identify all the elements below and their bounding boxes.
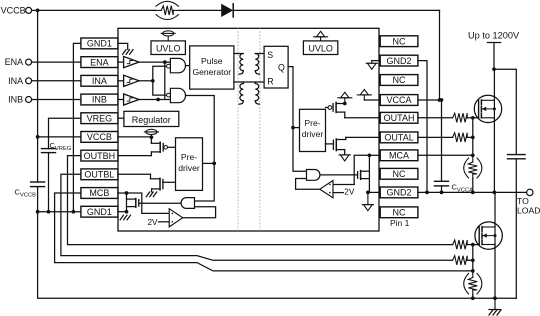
svg-text:Generator: Generator: [192, 67, 231, 77]
svg-text:INB: INB: [8, 95, 23, 105]
wire gate node vertical (A): [472, 118, 474, 156]
wire VCCB terminal to rail: [32, 9, 38, 11]
wire VREG to Regulator: [118, 117, 124, 119]
svg-text:R: R: [267, 77, 273, 87]
svg-text:Pulse: Pulse: [201, 56, 223, 66]
wire INA: [32, 80, 81, 82]
power flag VCCA at pin: [360, 89, 368, 95]
transformer T2 primary: [240, 84, 243, 101]
gate driver IC outline: [118, 28, 379, 231]
node Q to pre-driver A: [291, 126, 295, 130]
and gate U2B: [170, 88, 185, 102]
resistor RG2 (OUTAL): [453, 133, 468, 142]
wire INB to gate U2B: [139, 99, 170, 101]
block Pre-driver (B): [176, 138, 203, 191]
node VCCB rail junction: [36, 9, 40, 13]
svg-text:Pre-: Pre-: [181, 152, 197, 162]
wire GND1 top pin to GND1 net: [73, 43, 81, 211]
power flag VCCB above UVLO: [163, 31, 174, 36]
wire top rail to fuse: [38, 9, 156, 11]
wire ENA down to INB input: [164, 62, 166, 99]
svg-text:NC: NC: [393, 208, 406, 218]
block UVLO (A-side): [303, 41, 337, 55]
wire GND2b pin: [368, 191, 380, 193]
wire OUTAH to gate resistor: [418, 117, 453, 119]
wire MCA comparator feed: [333, 155, 369, 184]
buffer INB (schmitt): [118, 99, 124, 101]
ground M2 source (GND1): [146, 192, 149, 197]
wire bootstrap rail down to VCCA: [439, 10, 441, 100]
resistor RG1 (OUTAH): [453, 113, 468, 122]
wire Q2 source to ground bus: [494, 245, 496, 299]
node B-channel net: [212, 162, 216, 166]
wire VCCA pin stub: [364, 99, 380, 101]
node MCA clamp node: [368, 153, 372, 157]
wire DC-link cap to ground bus: [515, 159, 517, 298]
node VCCB rail node: [150, 135, 154, 139]
wire GND1 main ground bus: [38, 212, 517, 299]
transistor M2 (NMOS pull-down): [150, 174, 152, 179]
svg-text:INA: INA: [92, 76, 107, 86]
wire U2B out to B-channel net: [186, 96, 215, 164]
wire Q2 drain: [494, 192, 496, 227]
resistor RG3 (OUTBH bus): [453, 240, 468, 249]
pin box OUTAH (right): [380, 112, 418, 123]
pin box NC (right): [380, 168, 418, 179]
node CVCCB-GND1: [36, 210, 40, 214]
wire OUTAL to gate resistor: [418, 136, 453, 138]
wire VCCA pin to CVCCA: [418, 100, 442, 181]
node Q2 source junction: [493, 296, 497, 300]
wire MCA pin: [369, 154, 380, 156]
wire VCCB to CVCCB: [37, 137, 39, 182]
pin box GND1 (left): [81, 206, 118, 217]
block SR latch: [264, 46, 288, 88]
svg-text:OUTBH: OUTBH: [84, 151, 116, 161]
capacitor DC link: [508, 154, 526, 156]
and gate U3 (clamp driver B): [181, 198, 194, 209]
svg-text:NC: NC: [393, 36, 406, 46]
svg-text:Regulator: Regulator: [132, 115, 171, 125]
wire MCB pin: [118, 192, 127, 194]
pin box GND2 (right): [380, 187, 418, 198]
wire Q to pre-driver A: [293, 127, 300, 129]
wire CVCCA to switch node: [441, 186, 443, 193]
wire OUTBL bus: [61, 174, 453, 260]
svg-text:OUTAH: OUTAH: [384, 113, 415, 123]
ground flag GND2 at M5 source: [339, 154, 350, 156]
svg-text:ENA: ENA: [5, 57, 24, 67]
svg-text:Up to 1200V: Up to 1200V: [468, 31, 520, 41]
node MCA junction: [471, 153, 475, 157]
wire INA to gate U2A bubble: [153, 66, 167, 81]
svg-text:ENA: ENA: [90, 57, 109, 67]
transformer T1 primary: [234, 53, 243, 55]
resistor RG4 (OUTBL bus): [453, 256, 468, 265]
isolation barrier dashed line left: [237, 28, 239, 231]
wire OUTAH pin: [345, 117, 380, 119]
wire GND2a flag stub: [372, 60, 380, 62]
power flag VCCA rail: [341, 92, 349, 98]
terminal TO LOAD: [527, 189, 533, 195]
svg-text:2V: 2V: [147, 218, 158, 227]
wire ENA to gate U2A: [139, 61, 170, 63]
wire HV rail: [487, 42, 500, 44]
wire RGS-B to ground bus: [472, 295, 474, 299]
node ENA branch: [163, 60, 167, 64]
gate-emitter device RGS-B (resistor with arcs): [468, 277, 477, 290]
wire 2V ref B: [159, 221, 170, 223]
wire B-channel net to AND U3: [195, 163, 215, 201]
wire to VCCB pin: [38, 136, 81, 138]
wire RG4 to gate node: [467, 259, 473, 261]
wire GND2 switch-node line: [418, 191, 527, 193]
power flag VCCB rail: [146, 129, 157, 134]
svg-text:Pin 1: Pin 1: [390, 218, 410, 228]
svg-text:TO: TO: [517, 196, 529, 206]
and gate U2A: [170, 58, 185, 72]
pin box INB (left): [81, 94, 118, 105]
node VCCB pin junction: [36, 135, 40, 139]
svg-text:OUTBL: OUTBL: [84, 170, 114, 180]
svg-text:NC: NC: [393, 169, 406, 179]
pin box GND2 (right): [380, 55, 418, 66]
wire OUTBH pin: [118, 155, 151, 157]
wire Pre-driver B input: [203, 162, 215, 164]
node HV junction: [492, 67, 496, 71]
wire 2V ref A: [333, 192, 343, 194]
capacitor CVCCA: [435, 180, 449, 182]
wire INB: [32, 99, 81, 101]
node Q1 source junction: [493, 191, 497, 195]
node RG4 junction: [471, 258, 475, 262]
wire RG3 to Q2 gate: [467, 244, 479, 246]
node MCB junction: [471, 269, 475, 273]
svg-text:Q: Q: [278, 63, 285, 73]
svg-text:OUTAL: OUTAL: [384, 133, 413, 143]
isolation barrier dashed line right: [259, 28, 261, 231]
comparator U4 (2V, B-side): [169, 209, 183, 227]
pin box NC (right): [380, 36, 418, 47]
wire clamp gate A: [321, 174, 358, 176]
wire Q1 drain: [493, 69, 495, 100]
transistor M3 (Miller clamp B): [126, 193, 128, 212]
svg-text:UVLO: UVLO: [308, 43, 333, 53]
ground GND1 at top pin: [118, 43, 128, 49]
wire RG1 to Q1 gate: [467, 117, 478, 119]
comparator U6 (2V, A-side): [320, 181, 333, 198]
transistor M1 (PMOS pull-up): [150, 137, 152, 143]
wire MCB comparator feed: [127, 193, 170, 213]
inrush limiter RS (resistor with arcs): [161, 6, 173, 15]
svg-text:driver: driver: [302, 129, 324, 139]
pin box VCCB (left): [81, 132, 118, 143]
capacitor CVREG: [42, 148, 56, 150]
svg-text:Pre-: Pre-: [304, 118, 320, 128]
transformer T2 secondary: [255, 84, 258, 101]
node RGS-A to GND2 line: [471, 191, 475, 195]
svg-text:VCCA: VCCA: [387, 95, 412, 105]
ground flag GND2 bottom pin: [367, 192, 369, 204]
wire comparator A out to AND U5: [296, 179, 320, 190]
wire OUTBH bus: [68, 156, 453, 245]
block Pulse Generator: [190, 46, 234, 89]
svg-text:VCCB: VCCB: [1, 6, 26, 16]
svg-text:MCA: MCA: [389, 151, 409, 161]
wire pulse generator to T2 / R input: [234, 81, 264, 83]
wire Q output: [288, 67, 306, 172]
node INB junction: [156, 98, 160, 102]
wire GND1 bottom pin: [118, 211, 127, 213]
pin box NC (right): [380, 75, 418, 86]
node GND2a junction: [425, 191, 429, 195]
wire clamp gate: [139, 202, 182, 204]
node clamp source GND1: [125, 210, 129, 214]
node INA branch: [151, 79, 155, 83]
wire CVCCB to GND1 line: [37, 187, 39, 212]
svg-text:GND1: GND1: [87, 39, 112, 49]
gate-emitter device RGS-A (resistor with arcs): [468, 162, 477, 174]
wire MCB bus: [55, 193, 473, 271]
transformer T1 secondary: [255, 53, 264, 55]
svg-text:GND2: GND2: [387, 188, 412, 198]
svg-text:UVLO: UVLO: [156, 43, 181, 53]
wire fuse to diode: [179, 9, 221, 11]
svg-text:INB: INB: [92, 95, 107, 105]
svg-text:2V: 2V: [344, 188, 355, 197]
svg-text:VCCB: VCCB: [87, 132, 112, 142]
node M4 source: [343, 102, 347, 106]
wire RG2 to gate node: [467, 136, 473, 138]
wire OUTBL pin: [118, 173, 151, 175]
node CVREG-GND1: [47, 210, 51, 214]
transistor M5 (NMOS pull-down A): [345, 137, 347, 139]
wire comparator B out to AND U3: [183, 207, 216, 218]
block UVLO (B-side): [151, 41, 185, 55]
wire gate node vertical (B): [472, 245, 474, 273]
svg-text:GND1: GND1: [87, 207, 112, 217]
wire Q1 source to switch node: [493, 118, 495, 193]
buffer INA (schmitt): [118, 80, 124, 82]
node GND2b clamp junction: [366, 191, 370, 195]
svg-text:VREG: VREG: [87, 113, 113, 123]
pin box ENA (left): [81, 57, 118, 68]
svg-text:driver: driver: [178, 163, 200, 173]
node bootstrap-VCCA junction: [438, 98, 442, 102]
pin box MCA (right): [380, 150, 418, 161]
transistor M6 (Miller clamp A): [368, 155, 370, 192]
bootstrap diode D1: [221, 4, 233, 17]
wire CVREG to GND1 line: [48, 153, 50, 212]
ground (power ground): [494, 298, 496, 309]
and gate U5 (clamp driver A): [307, 170, 320, 181]
wire RGS-A to switch node: [472, 179, 474, 193]
pin box OUTAL (right): [380, 132, 418, 143]
pin box NC (right): [380, 207, 418, 218]
wire GND2a to switch node: [418, 61, 427, 193]
node MCB clamp node: [125, 191, 129, 195]
node GND1 net junction: [72, 210, 76, 214]
wire INA to gate U2B bubble: [153, 81, 167, 95]
svg-text:NC: NC: [393, 75, 406, 85]
capacitor CVCCB: [31, 181, 45, 183]
wire VREG pin to CVREG: [49, 118, 81, 148]
ground clamp source (GND1): [126, 212, 128, 215]
wire U2A out to pulse generator: [186, 65, 190, 67]
node CVCCA junction: [440, 191, 444, 195]
block Pre-driver (A): [300, 109, 326, 151]
wire VCCB pin to rail flag: [118, 136, 151, 138]
node RG2 junction: [471, 136, 475, 140]
pin box VREG (left): [81, 113, 118, 124]
transistor M4 (PMOS pull-up A): [336, 103, 345, 105]
svg-text:MCB: MCB: [89, 188, 109, 198]
svg-text:INA: INA: [8, 76, 23, 86]
wire INA to branch: [139, 80, 153, 82]
power flag VCCA above UVLO: [316, 31, 324, 37]
node RGS-B ground: [471, 296, 475, 300]
block Regulator: [124, 111, 179, 126]
pin box VCCA (right): [380, 95, 418, 106]
wire VCCB vertical: [37, 10, 39, 136]
pin box MCB (left): [81, 188, 118, 199]
wire HV to DC-link cap: [494, 69, 516, 154]
node VCCA corner: [440, 98, 444, 102]
node Q2 gate node: [471, 243, 475, 247]
pin box OUTBH (left): [81, 150, 118, 161]
pin box INA (left): [81, 75, 118, 86]
wire ENA: [32, 61, 81, 63]
wire OUTAL pin: [346, 136, 381, 138]
transistor Q1 (external high-side SiC MOSFET): [474, 95, 501, 122]
wire GND1 row line (left of pin): [38, 211, 81, 213]
wire MCA to clamp node: [418, 154, 473, 156]
buffer ENA (schmitt): [118, 61, 124, 63]
ground flag GND2 top pin: [371, 61, 373, 64]
transistor Q2 (external low-side SiC MOSFET): [475, 222, 502, 249]
pin box GND1 (left): [81, 38, 118, 49]
pin box OUTBL (left): [81, 169, 118, 180]
node Q1 gate node: [471, 116, 475, 120]
svg-text:LOAD: LOAD: [517, 205, 540, 215]
svg-text:S: S: [267, 50, 273, 60]
svg-text:GND2: GND2: [387, 56, 412, 66]
